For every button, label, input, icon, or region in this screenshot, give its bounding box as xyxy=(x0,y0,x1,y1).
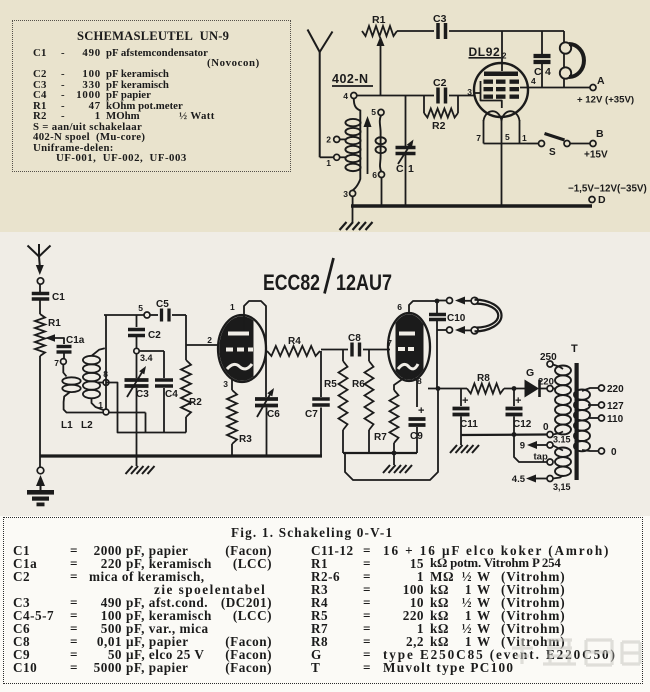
capacitor C4 (top) xyxy=(541,31,543,54)
grid wire 2 with C8 xyxy=(321,349,348,351)
wire diode to 220 terminal xyxy=(541,388,548,390)
capacitor C2 (main) xyxy=(136,315,138,327)
left vertical grid wire xyxy=(105,315,107,409)
V1 grid dashes xyxy=(226,348,233,352)
capacitor C2 (top) xyxy=(436,88,440,104)
node 7 (coil tap) xyxy=(61,359,67,365)
resistor R7 xyxy=(394,378,404,390)
V1 anode bar xyxy=(228,332,249,336)
capacitor C1a xyxy=(57,345,72,348)
capacitor C3 (top) xyxy=(436,23,440,39)
variable capacitor C6 xyxy=(265,346,267,397)
node 5 circle (main) xyxy=(144,312,150,318)
R1 lower wire to bus xyxy=(39,356,41,456)
capacitor C1 (main) xyxy=(32,292,50,296)
node 4 xyxy=(351,93,357,99)
capacitor C10 xyxy=(429,313,446,317)
DL92 pin 3 wire xyxy=(474,92,481,94)
R1 wiper arrow to C1a xyxy=(45,334,55,342)
resistor R5 xyxy=(342,350,344,362)
V1 cathode arc xyxy=(227,364,252,369)
filament centre return wire xyxy=(501,144,503,207)
node 1 wire xyxy=(109,412,146,414)
terminal B xyxy=(590,141,596,147)
DL92 filament arcs xyxy=(484,111,502,121)
secondary terminal 110 xyxy=(588,417,599,419)
node 3 xyxy=(350,190,356,196)
terminal 250 xyxy=(547,361,553,367)
headphone jack terminals (upper) xyxy=(437,300,447,302)
V1 pin 3 cathode wire xyxy=(231,379,233,390)
supply rail (top schematic) xyxy=(351,204,592,207)
junction dot anode/headphones xyxy=(435,299,440,304)
arrow 9 xyxy=(536,444,547,446)
terminal 220 (primary) xyxy=(547,386,553,392)
antenna node circle xyxy=(37,278,43,284)
terminal 3.15 xyxy=(547,442,553,448)
resistor R2 (main) xyxy=(185,315,187,360)
capacitor C8 xyxy=(350,343,353,357)
grid return wires xyxy=(106,383,186,433)
middle section background xyxy=(0,232,650,516)
headphone jack terminals (lower) xyxy=(437,329,447,331)
node 5 (top schematic) xyxy=(378,109,384,115)
arrow 4.5 xyxy=(534,478,547,480)
potentiometer R1 (top) xyxy=(362,26,397,36)
antenna (top schematic) xyxy=(308,30,320,53)
node 3-4 xyxy=(134,348,139,353)
secondary terminal 127 xyxy=(588,404,599,406)
node 1 (main) xyxy=(103,409,109,415)
wire antenna to node 1 xyxy=(320,156,334,158)
ground under C11 xyxy=(460,435,462,445)
V2 cathode arc xyxy=(398,364,418,369)
beige top section background xyxy=(0,0,650,232)
grid wire node4 to C2 xyxy=(357,95,434,97)
transformer filament winding xyxy=(555,448,571,458)
variable capacitor C1 (top) xyxy=(405,96,407,147)
wire R8 to diode xyxy=(504,388,525,390)
chassis ground (bottom left) xyxy=(39,456,41,467)
triode V1 grid wire (pin 2) xyxy=(186,344,218,346)
filament bottom wire xyxy=(484,143,528,145)
switch S xyxy=(527,143,539,145)
coil L2 xyxy=(92,348,105,355)
coil 402-N secondary xyxy=(380,115,382,171)
ground (top schematic) xyxy=(352,206,354,222)
node 8 xyxy=(97,382,103,384)
wire to tap terminal xyxy=(514,435,547,463)
potentiometer R1 (main) xyxy=(35,314,45,356)
ground under R7 xyxy=(393,453,395,465)
transformer T core xyxy=(575,363,579,480)
transformer secondary winding xyxy=(574,390,590,400)
headphones (top) xyxy=(563,31,565,42)
B+ return loop xyxy=(345,388,438,480)
R1 wiper arrow xyxy=(377,36,385,46)
DL92 pin 4 wire to terminal A xyxy=(520,87,590,89)
DL92 grid dashes xyxy=(484,80,494,84)
secondary terminal 220 xyxy=(582,388,599,391)
filter bottom rail xyxy=(461,433,547,436)
antenna (main schematic) xyxy=(28,246,40,257)
parts list box Fig. 1 xyxy=(3,517,643,684)
capacitor C11 (electrolytic) xyxy=(460,389,462,407)
capacitor C4 (main) xyxy=(139,350,164,352)
headphone line down to R8 xyxy=(436,330,438,389)
terminal tap xyxy=(547,459,553,465)
node 1 xyxy=(334,154,340,160)
DL92 anode bar xyxy=(484,72,518,77)
capacitor C5 xyxy=(150,314,158,316)
V2 anode bar xyxy=(399,332,415,336)
resistor R3 xyxy=(227,390,237,444)
resistor R8 xyxy=(467,384,504,394)
node 2 stub xyxy=(334,136,340,142)
ground bus (main) xyxy=(40,454,322,457)
secondary terminal 0 xyxy=(582,450,599,451)
transformer primary winding xyxy=(555,366,571,376)
diode G xyxy=(525,380,540,398)
coil 402-N primary xyxy=(353,99,361,191)
ground hatch under bus xyxy=(136,456,138,466)
DL92 pins 7 5 1 xyxy=(483,120,485,144)
terminal 0 (primary) xyxy=(547,432,553,438)
capacitor C7 xyxy=(320,351,322,397)
node 5 wire xyxy=(104,314,144,316)
capacitor C12 (electrolytic) xyxy=(513,389,515,407)
coil core arrow xyxy=(367,125,369,174)
top wire C3 to headphone branch xyxy=(449,30,564,32)
coil L1 xyxy=(63,365,66,377)
top wire R1 to C3 xyxy=(397,30,434,32)
DL92 pin 2 wire xyxy=(501,31,503,71)
wire cathode line to R8 xyxy=(428,388,467,390)
cathode network rail xyxy=(343,452,417,454)
resistor R6 xyxy=(368,350,370,362)
headphone arc xyxy=(475,300,502,332)
terminal 3,15 (bottom) xyxy=(547,476,553,482)
V2 grid dashes xyxy=(398,347,405,351)
parts list box SCHEMASLEUTEL UN-9 xyxy=(12,20,291,172)
variable capacitor C3 (main) xyxy=(136,354,138,378)
node 6 xyxy=(379,172,385,178)
resistor R4 xyxy=(267,346,320,356)
resistor R2 (top) xyxy=(423,96,425,114)
wire to terminal B xyxy=(570,143,590,145)
tube DL92 envelope xyxy=(474,63,528,117)
terminal A xyxy=(590,85,596,91)
